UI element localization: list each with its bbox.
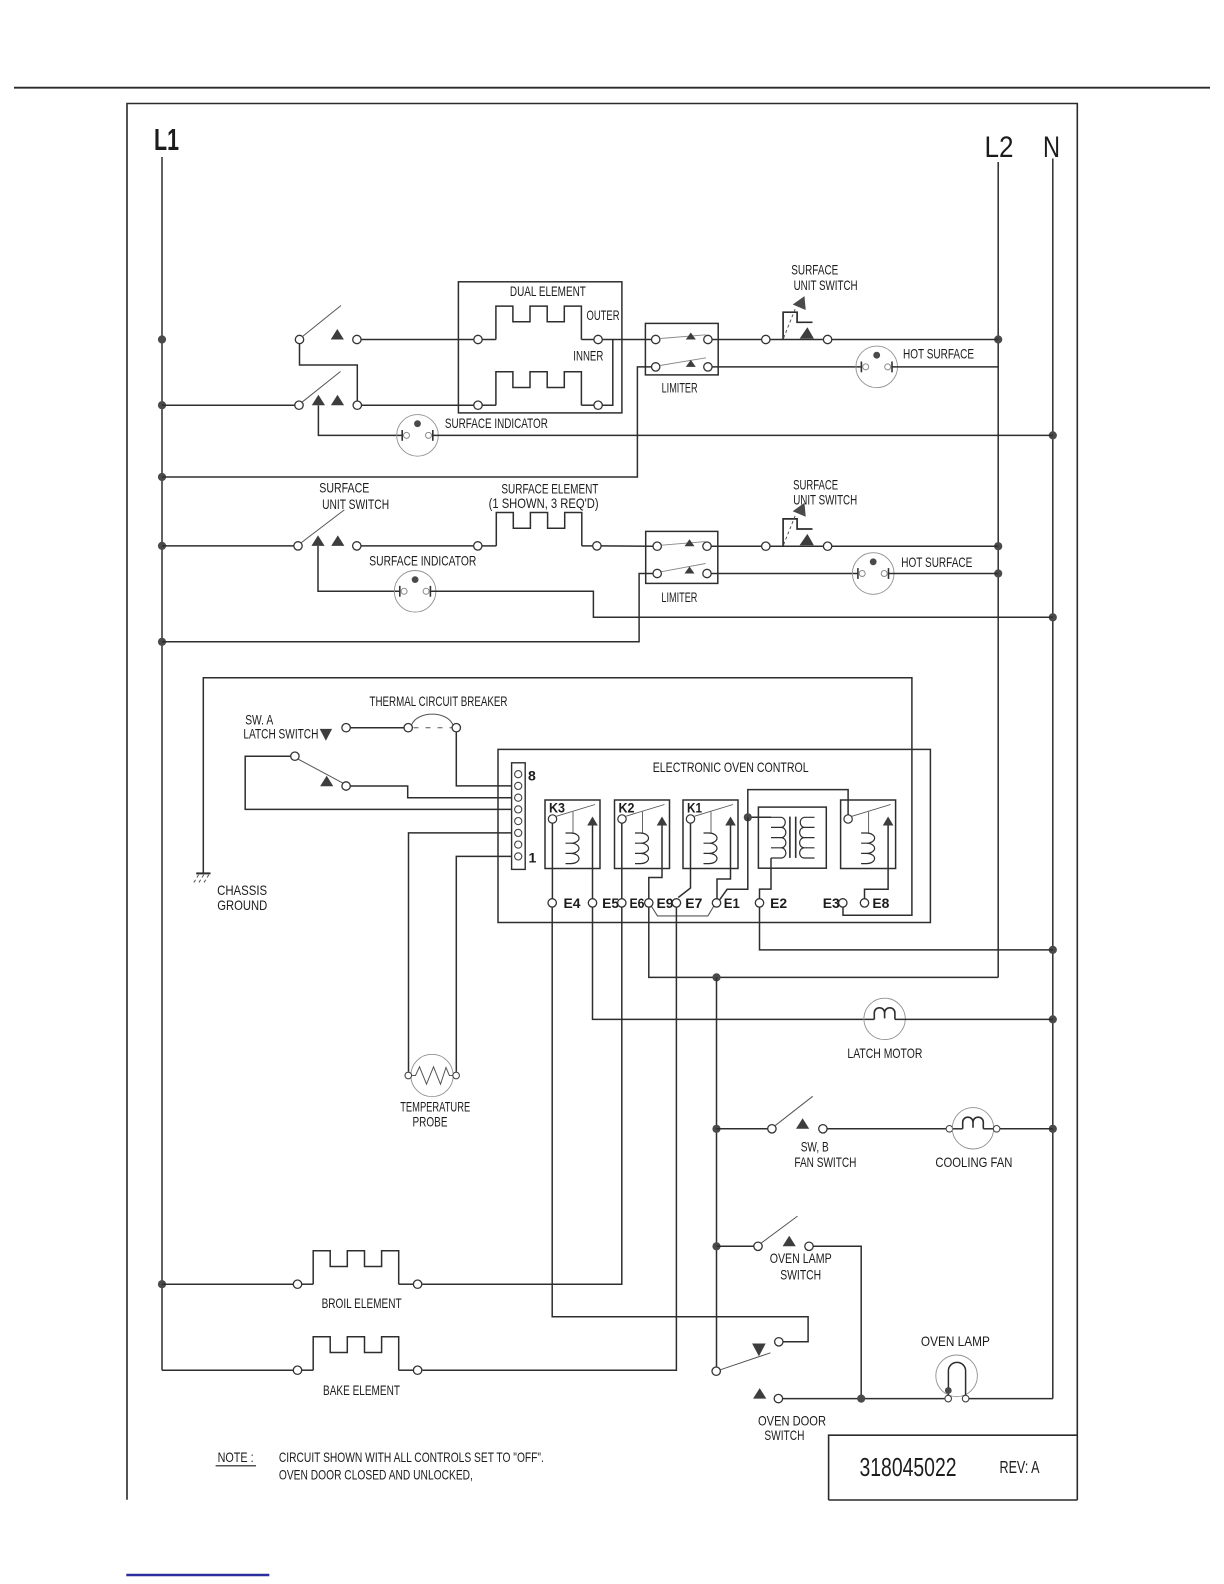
heating element bake element <box>293 1337 422 1375</box>
relay R5 (unlabelled) <box>841 800 896 869</box>
relay K3 <box>545 800 600 869</box>
EOC box <box>498 749 930 922</box>
junction L1 broil <box>158 1280 166 1288</box>
wire outer to limiter1 <box>602 339 651 341</box>
motor latch motor <box>864 998 905 1039</box>
svg-text:LATCH SWITCH: LATCH SWITCH <box>243 725 318 741</box>
wire surface indicator 1 to N <box>433 434 1053 436</box>
terminal E4 <box>548 899 556 907</box>
svg-text:FAN SWITCH: FAN SWITCH <box>794 1154 856 1170</box>
connector pins 1-8 <box>515 771 522 860</box>
wire L1 to SW1b <box>162 404 295 406</box>
indicator hot surface 1 <box>856 346 898 388</box>
svg-text:LATCH MOTOR: LATCH MOTOR <box>847 1045 922 1061</box>
svg-text:SURFACE INDICATOR: SURFACE INDICATOR <box>369 553 476 569</box>
wire limiter1 to hot surface 1 <box>712 366 861 368</box>
svg-text:SURFACE: SURFACE <box>791 262 838 278</box>
svg-text:LIMITER: LIMITER <box>661 589 697 605</box>
wire E1 riser to node <box>720 817 748 899</box>
junction L1 limiter2 feed <box>158 638 166 646</box>
wire K3 armature to E5 <box>592 869 594 899</box>
wire SW.A contact to pin 6 <box>350 786 511 798</box>
junction lamp switch drop <box>857 1395 865 1403</box>
wire SW2 to surface indicator 2 <box>318 546 400 591</box>
wire E1 net down to door switch <box>716 977 718 1367</box>
svg-text:L1: L1 <box>154 122 179 157</box>
terminal E8 <box>860 899 868 907</box>
svg-text:E1: E1 <box>724 895 740 911</box>
wire E6 to broil element <box>422 907 621 1284</box>
wire cooling fan to N <box>1000 1128 1053 1130</box>
svg-text:BAKE ELEMENT: BAKE ELEMENT <box>323 1382 400 1398</box>
transformer T1 <box>758 807 826 868</box>
wire K2 armature to E9 <box>649 869 662 899</box>
wire E9/E1 rail to L2 <box>649 907 998 977</box>
svg-text:E9: E9 <box>657 895 674 911</box>
svg-text:E5: E5 <box>602 895 619 911</box>
wire relay R5 armature to E8 <box>865 869 889 899</box>
wire latch motor to N <box>895 1018 1053 1020</box>
wire SW.A common to pin 5 <box>245 756 511 809</box>
terminal E6 <box>618 899 626 907</box>
wire fan switch to cooling fan <box>827 1128 946 1130</box>
wire under-route E9 to E1 <box>652 906 714 916</box>
svg-text:E3: E3 <box>823 895 840 911</box>
switch SW1a (row A ganged switch) <box>295 306 361 344</box>
junction E1 rail <box>712 973 720 981</box>
svg-text:ELECTRONIC OVEN CONTROL: ELECTRONIC OVEN CONTROL <box>653 759 809 775</box>
switch surface unit switch 2 (right) <box>762 503 832 551</box>
junction oven lamp switch tap <box>712 1242 720 1250</box>
wire SUS1 to L2 <box>832 339 998 341</box>
svg-text:COOLING FAN: COOLING FAN <box>935 1154 1012 1170</box>
motor cooling fan <box>946 1108 1000 1149</box>
svg-text:E2: E2 <box>770 895 787 911</box>
terminal E3 <box>839 899 847 907</box>
svg-text:INNER: INNER <box>573 348 603 364</box>
wire L1 feed to limiter1 lower <box>162 367 652 477</box>
svg-text:UNIT SWITCH: UNIT SWITCH <box>793 492 857 508</box>
wire inner right riser <box>602 340 613 406</box>
svg-text:E7: E7 <box>685 895 702 911</box>
junction node K1/transformer feed <box>744 813 752 821</box>
wire SW1b to inner element <box>362 404 474 406</box>
dual element box <box>458 282 622 413</box>
terminal E9 <box>645 899 653 907</box>
junction L2 row A <box>994 335 1002 343</box>
wire chassis ground loop to E3 <box>203 678 912 916</box>
resistor temperature probe <box>405 1054 459 1096</box>
heating element surface element <box>474 513 602 551</box>
wire oven lamp to N <box>969 1398 1053 1400</box>
wire L1 feed to limiter2 lower <box>162 574 653 642</box>
wire limiter2 to hot surface 2 <box>711 573 858 575</box>
svg-text:SURFACE INDICATOR: SURFACE INDICATOR <box>445 415 548 431</box>
svg-text:K2: K2 <box>619 801 635 816</box>
limiter 1 <box>645 323 718 375</box>
switch SW1b (row B ganged switch) <box>295 372 362 410</box>
wire limiter1 to surface unit switch 1 <box>712 339 762 341</box>
svg-text:NOTE :: NOTE : <box>218 1449 254 1465</box>
wire door switch to oven lamp <box>783 1398 945 1400</box>
wire surface element to limiter2 <box>601 545 653 547</box>
bottom-left blue mark <box>126 1574 269 1576</box>
svg-text:CIRCUIT SHOWN WITH ALL CONTROL: CIRCUIT SHOWN WITH ALL CONTROLS SET TO "… <box>279 1449 544 1465</box>
switch oven door switch <box>712 1338 783 1403</box>
wire E7 to bake element <box>422 907 676 1370</box>
svg-text:PROBE: PROBE <box>413 1114 448 1130</box>
indicator hot surface 2 <box>852 553 894 595</box>
heating element broil element <box>293 1251 422 1289</box>
svg-text:UNIT SWITCH: UNIT SWITCH <box>794 277 858 293</box>
svg-text:8: 8 <box>528 768 536 784</box>
heating element inner <box>474 372 603 410</box>
svg-text:(1 SHOWN, 3 REQ'D): (1 SHOWN, 3 REQ'D) <box>489 495 599 511</box>
wire breaker to pin 7 <box>456 732 511 786</box>
svg-text:SURFACE: SURFACE <box>793 477 838 493</box>
svg-text:1: 1 <box>529 850 537 866</box>
wire K1 coil to E7 <box>678 823 690 897</box>
svg-text:OVEN LAMP: OVEN LAMP <box>921 1333 990 1349</box>
title block box 318045022 <box>829 1435 1078 1500</box>
switch SW. A latch switch <box>291 752 351 790</box>
svg-text:E8: E8 <box>872 895 889 911</box>
junction fan switch tap <box>712 1125 720 1133</box>
indicator surface indicator 2 <box>394 571 436 613</box>
wire node to relay R5 pivot <box>748 790 848 818</box>
wire pin 3 to temperature probe <box>409 833 512 1072</box>
svg-text:E6: E6 <box>630 895 645 911</box>
svg-text:K3: K3 <box>549 801 565 816</box>
svg-text:L2: L2 <box>985 131 1014 164</box>
indicator surface indicator 1 <box>397 415 439 457</box>
switch surface unit switch 1 <box>762 296 832 344</box>
marker triangle down (latch switch) <box>320 729 332 741</box>
svg-text:BROIL ELEMENT: BROIL ELEMENT <box>322 1295 402 1311</box>
wire E2 to N <box>760 907 1053 950</box>
ground chassis ground symbol <box>194 873 211 882</box>
terminal E2 <box>755 899 763 907</box>
junction N latch motor <box>1049 1015 1057 1023</box>
wire tap to fan switch <box>717 1128 768 1130</box>
terminal E5 <box>588 899 596 907</box>
svg-text:HOT SURFACE: HOT SURFACE <box>901 554 972 570</box>
svg-text:OVEN DOOR: OVEN DOOR <box>758 1412 826 1428</box>
wire limiter2 to SUS2 <box>711 545 761 547</box>
svg-text:318045022: 318045022 <box>860 1452 957 1482</box>
relay K2 <box>615 800 670 869</box>
switch surface unit switch 2 (left) <box>294 510 361 550</box>
junction L1 limiter1 feed <box>158 473 166 481</box>
junction N cooling fan <box>1049 1125 1057 1133</box>
svg-text:DUAL ELEMENT: DUAL ELEMENT <box>510 283 586 299</box>
wire L1 to bake element <box>162 1369 293 1371</box>
wire SUS2 to L2 <box>832 545 998 547</box>
wire oven lamp switch to lamp row <box>813 1246 861 1398</box>
terminal E1 <box>712 899 720 907</box>
wire link SW1a to SW1b <box>300 344 358 401</box>
wire K2 coil to E6 <box>621 823 623 899</box>
relay K1 <box>683 800 738 869</box>
wire transformer primary to E2 <box>760 858 772 899</box>
svg-text:UNIT SWITCH: UNIT SWITCH <box>322 496 389 512</box>
wire SW1b to surface indicator 1 <box>318 405 402 435</box>
wire L1 to SW2 <box>162 545 294 547</box>
junction N E2 <box>1049 946 1057 954</box>
wire E4 to door switch throw <box>552 907 808 1342</box>
wire L1 rail <box>161 157 163 1370</box>
heating element outer <box>474 306 603 344</box>
terminal E7 <box>672 899 680 907</box>
switch oven lamp switch <box>754 1216 813 1250</box>
svg-text:OVEN DOOR CLOSED AND UNLOCKED,: OVEN DOOR CLOSED AND UNLOCKED, <box>279 1467 473 1483</box>
wire N rail <box>1052 159 1054 1399</box>
svg-text:OUTER: OUTER <box>587 307 620 323</box>
svg-text:SW, B: SW, B <box>801 1139 829 1155</box>
svg-text:E4: E4 <box>564 895 581 911</box>
wire SW2 to surface element <box>361 545 474 547</box>
svg-text:THERMAL CIRCUIT BREAKER: THERMAL CIRCUIT BREAKER <box>370 693 508 709</box>
svg-text:TEMPERATURE: TEMPERATURE <box>400 1099 470 1115</box>
breaker thermal circuit breaker <box>342 714 461 732</box>
wire surface indicator 2 to N <box>430 591 1052 617</box>
svg-text:CHASSIS: CHASSIS <box>217 882 267 898</box>
wire L1 to broil element <box>162 1283 293 1285</box>
svg-text:SURFACE: SURFACE <box>319 480 369 496</box>
svg-text:HOT SURFACE: HOT SURFACE <box>903 346 974 362</box>
junction L1 row C <box>158 542 166 550</box>
wire L2 rail <box>997 162 999 977</box>
drawing border frame <box>127 104 1077 1501</box>
junction L2 row C <box>994 542 1002 550</box>
junction N surface indicator 2 <box>1049 613 1057 621</box>
lamp oven lamp <box>936 1355 978 1402</box>
connector P1 strip <box>512 763 526 870</box>
wire E5 to latch motor <box>593 907 875 1019</box>
junction N surface indicator 1 <box>1049 431 1057 439</box>
svg-text:SWITCH: SWITCH <box>764 1427 804 1443</box>
limiter 2 <box>646 531 718 583</box>
wire K1 armature to E1 <box>717 869 731 899</box>
svg-text:OVEN LAMP: OVEN LAMP <box>770 1250 832 1266</box>
wire hot surface 2 to L2 <box>889 573 999 575</box>
wire tap to oven lamp switch <box>717 1245 754 1247</box>
wire pin 1 to temperature probe <box>456 856 511 1071</box>
wire K3 coil to E4 <box>551 823 553 899</box>
wire hot surface 1 to L2 <box>892 366 998 368</box>
junction L1 row A <box>158 335 166 343</box>
switch SW. B fan switch <box>768 1096 827 1133</box>
page top rule <box>14 87 1210 89</box>
svg-text:SWITCH: SWITCH <box>780 1266 821 1282</box>
svg-text:LIMITER: LIMITER <box>662 380 698 396</box>
svg-text:K1: K1 <box>687 801 702 816</box>
junction L2 hot surface 2 <box>994 569 1002 577</box>
wire SW1a to outer element <box>361 339 474 341</box>
junction L1 row B <box>158 401 166 409</box>
svg-text:N: N <box>1043 131 1060 164</box>
wire node to transformer primary <box>748 816 771 818</box>
svg-text:GROUND: GROUND <box>217 897 267 913</box>
svg-text:REV: A: REV: A <box>1000 1457 1040 1477</box>
